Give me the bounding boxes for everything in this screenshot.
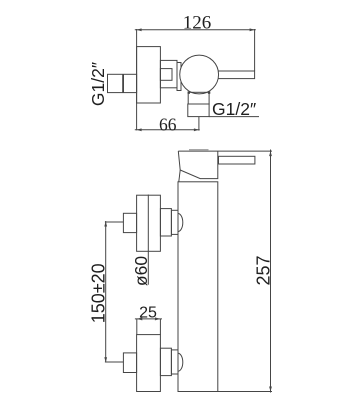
outlet upper block [188, 92, 209, 104]
dimension 257 top arrow [269, 151, 272, 156]
dimension 150±20 bottom extension line [105, 361, 124, 363]
lower fitting ball arc [178, 353, 183, 371]
upper fitting ball arc [178, 214, 183, 232]
wall plate [137, 47, 161, 103]
svg-text:ø60: ø60 [131, 256, 151, 286]
dimension 25 line [135, 318, 162, 320]
dimension 25 left arrow [137, 317, 143, 320]
dimension 66 right arrow [194, 128, 199, 131]
dimension 66 left arrow [137, 128, 142, 131]
svg-text:66: 66 [159, 115, 177, 135]
svg-text:150±20: 150±20 [89, 263, 109, 323]
body bottom edge / 257 bottom extension line [178, 391, 272, 393]
dimension 25 left extension line [136, 319, 138, 335]
upper fitting nut [123, 213, 136, 232]
connector outer block [160, 60, 177, 87]
valve body circle [180, 55, 219, 94]
dimension 150±20 top extension line [105, 221, 124, 223]
dimension 126 right arrow [250, 28, 255, 31]
svg-text:257: 257 [254, 255, 274, 285]
dimension 126 left arrow [137, 28, 142, 31]
dimension 25 right extension line [159, 319, 161, 335]
dimension 25 right arrow [155, 317, 161, 320]
upper fitting flange [160, 209, 171, 236]
svg-text:25: 25 [139, 305, 157, 322]
dimension 126 right extension line [254, 29, 256, 71]
G1/2" leader line (outlet) [209, 116, 259, 118]
lower fitting escutcheon [137, 335, 161, 392]
connector inner block [160, 69, 172, 81]
dimension 257 line [270, 150, 272, 393]
dimension 66 right extension line [198, 117, 200, 131]
upper fitting lip [171, 210, 178, 234]
collar strip [177, 63, 181, 91]
dimension 150±20 top arrow [104, 222, 107, 227]
handle lever (bottom view) [219, 156, 255, 164]
lower fitting nut [123, 353, 136, 373]
outlet lower block [188, 104, 209, 117]
dimension 257 bottom arrow [269, 387, 272, 392]
top cap [189, 149, 209, 151]
upper fitting escutcheon [137, 195, 161, 251]
dimension 150±20 line [105, 221, 107, 362]
lower fitting lip [171, 350, 178, 374]
inlet nut divider [122, 74, 124, 92]
dimension 150±20 bottom arrow [104, 357, 107, 362]
inlet nut (left, top view) [108, 74, 137, 92]
dimension 66 line [135, 129, 200, 131]
mixer body [178, 182, 218, 392]
head block [178, 151, 218, 179]
head-to-body sliver line [179, 170, 180, 182]
svg-text:G1/2″: G1/2″ [212, 99, 256, 119]
dia 60 leader line [147, 195, 149, 285]
svg-text:G1/2″: G1/2″ [88, 62, 108, 106]
body top edge / 257 top extension line [178, 150, 272, 152]
handle lever (top view) [216, 71, 255, 79]
dimension 126 line [135, 29, 256, 31]
lower fitting flange [160, 348, 171, 375]
outlet-circle junction left wedge [188, 91, 190, 93]
outlet-circle junction right wedge [208, 91, 210, 93]
svg-text:126: 126 [183, 13, 212, 34]
dimension 126 left extension line [136, 29, 138, 130]
